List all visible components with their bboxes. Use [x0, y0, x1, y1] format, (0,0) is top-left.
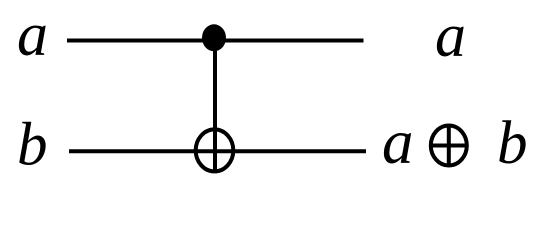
svg-text:a: a [17, 1, 48, 69]
control dot (CNOT control on qubit a) [202, 24, 226, 51]
XOR symbol (circled plus glyph) [431, 126, 467, 166]
svg-text:a: a [435, 2, 466, 70]
wire (top qubit line) [67, 39, 364, 43]
svg-text:b: b [497, 110, 528, 177]
CNOT target symbol (circle-plus gate on qubit b) [196, 129, 234, 171]
svg-text:a: a [382, 107, 414, 177]
svg-text:b: b [17, 112, 48, 179]
wire (vertical control-target link) [213, 38, 217, 172]
wire (bottom qubit line) [69, 149, 366, 153]
